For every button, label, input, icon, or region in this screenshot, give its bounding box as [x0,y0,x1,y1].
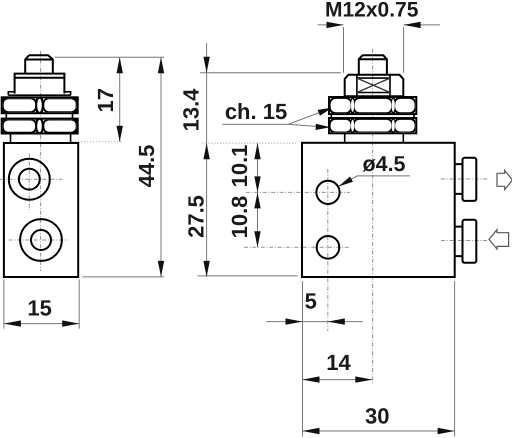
left view upper hole outer [9,159,50,200]
leader diameter 4.5 lines [339,176,410,186]
dimension 27.5 arrow bottom [203,261,209,277]
left view lower hole outer [20,219,62,261]
svg-text:17: 17 [93,88,118,112]
right view threaded bushing x-block outline [345,75,404,97]
extension line right body right bottom [454,281,456,437]
left view hex nut N2 center sliver [37,120,42,132]
dimension 5 arrow left [286,318,303,324]
right view hex nut B middle facet arc [354,119,393,133]
svg-text:ch. 15: ch. 15 [225,99,287,124]
dimension 30 arrow left [303,428,320,434]
extension line M12 right [403,27,405,73]
right view hex nut A gap slivers [351,99,354,112]
extension line M12 left [343,27,345,73]
right view hex nut A outline [329,97,416,114]
dimension 15 line [4,323,79,325]
right view x-block facet edges [357,75,390,97]
upper port neck [455,164,463,194]
dimension 10.1 10.8 line [257,143,259,247]
right view hex nut B right facet [394,119,415,133]
left view body [4,143,78,277]
dimension 10.8 arrow down [254,231,260,247]
right view hex nut A right facet [394,98,415,113]
right view hex nut B left facet [330,119,352,133]
svg-text:30: 30 [365,404,389,429]
dimension 27.5 arrow up to body top [203,143,209,159]
centerline right view stem axis [372,49,374,384]
extension line right body left bottom [302,281,304,437]
lower port neck [455,227,463,257]
left view hex nut N1 corner wedges [2,97,78,113]
centerline right upper hole horizontal [246,191,350,193]
left view guide step [15,74,65,94]
leader diameter 4.5 arrow [338,177,353,187]
right view body [302,143,455,277]
extension line top of plunger y57 [55,56,164,58]
left view hex nut N1 outline [2,97,78,113]
centerline upper port [441,178,487,180]
upper port cap [463,158,477,201]
reference dotted line nut seat left view [72,141,123,143]
left view washer between nuts [6,113,72,118]
right view lower hole [317,236,340,259]
leader ch.15 lines [223,108,332,127]
dimension 13.4 arrow down to x-block top [203,57,209,73]
left view hex nut N2 right facet arc [43,120,76,133]
centerline lower port [441,240,487,242]
right view hex nut B facet gaps [351,118,395,133]
left view upper hole inner [19,169,40,190]
centerline right lower hole horizontal [244,246,350,248]
extension line left body left bottom [3,280,5,329]
svg-text:10.8: 10.8 [227,196,252,239]
dimension 15 arrow right [62,320,79,326]
leader ch.15 arrow upper nut [318,108,333,116]
dimension 17 arrow bottom [117,126,123,142]
dimension 30 arrow right [438,428,455,434]
centerline left view plunger axis [40,51,42,271]
left view washer tab left [8,92,70,95]
svg-text:ø4.5: ø4.5 [362,152,405,176]
dimension 30 line [303,430,455,432]
centerline left upper hole vertical [28,153,30,210]
extension line bottom left body y276.9 [83,276,164,278]
svg-text:15: 15 [27,296,51,321]
flow arrow in hollow left [489,230,509,249]
right view x-block face top and bottom [357,78,390,92]
left view hex nut N2 corner wedges [2,119,78,134]
dimension 44.5 arrow top [158,57,164,73]
right view washer between nuts [331,114,414,118]
left view hex nut N1 center sliver [37,99,42,112]
dimension M12 arrow left [327,22,344,28]
dimension 14 line [303,379,373,381]
dimension M12 arrow right [404,22,421,28]
left view plunger cap [25,55,53,73]
right view hex nut B gap slivers [351,120,354,132]
right view plunger cap [359,55,387,75]
extension line bottom 27.5 y276.9 [197,275,297,277]
right view hex nut B outline [329,118,416,133]
left view hex nut N2 center facet strip [36,119,43,134]
dimension 13.4 27.5 line [206,43,208,277]
dimension 14 arrow right [355,376,372,382]
dimension M12x0.75 line [318,24,441,26]
centerline left lower hole horizontal [9,239,69,241]
svg-text:13.4: 13.4 [179,88,204,132]
dimension 14 arrow left [303,376,320,382]
reference dotted line body top right view [202,142,296,144]
dimension 10.1 arrow up [254,143,260,159]
extension line x-block top y72.7 [200,72,341,74]
left view hex nut N1 center facet strip [36,97,43,113]
right view hex nut A middle facet arc [354,98,393,113]
centerline right holes vertical [327,169,329,331]
right view upper hole [316,181,339,204]
svg-text:5: 5 [305,289,317,314]
svg-text:27.5: 27.5 [184,195,209,238]
right view hex nut A left facet [330,98,352,113]
left view hex nut N1 left facet arc [3,98,36,112]
dimension 44.5 arrow bottom [158,261,164,277]
left view washer below nut N2 [11,134,71,144]
left view hex nut N2 outline [2,119,78,134]
dimension 5 arrow right [328,318,345,324]
dimension 15 arrow left [4,320,21,326]
extension line left body right bottom [78,280,80,329]
dimension 44.5 line [160,57,162,277]
left view hex nut N1 right facet arc [43,98,76,112]
svg-text:M12x0.75: M12x0.75 [325,0,419,22]
dimension 10.1 arrow down [254,176,260,192]
svg-text:44.5: 44.5 [134,145,159,188]
dimension 17 line [119,57,121,142]
leader ch.15 arrow lower nut [316,124,331,130]
dimension 17 arrow top [117,57,123,73]
right view bushing below nut B [345,133,404,143]
centerline left upper hole horizontal [0,178,62,180]
dimension 10.8 arrow up [254,192,260,208]
lower port cap [463,220,477,263]
right view x-block cross [357,78,390,92]
svg-text:10.1: 10.1 [227,145,252,188]
left view hex nut N2 left facet arc [3,120,36,133]
dimension 5 line [267,321,363,323]
left view lower hole inner [31,230,51,250]
svg-text:14: 14 [326,350,351,375]
flow arrow out hollow right [497,170,512,189]
right view hex nut A facet gaps [351,97,395,114]
